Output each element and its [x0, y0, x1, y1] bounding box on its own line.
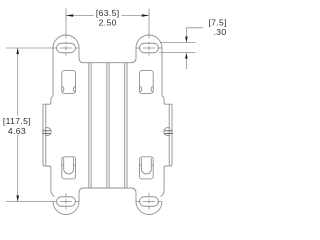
svg-text:2.50: 2.50: [99, 17, 117, 27]
svg-text:[7.5]: [7.5]: [208, 18, 226, 28]
svg-text:4.63: 4.63: [8, 126, 26, 136]
svg-text:[117.5]: [117.5]: [3, 116, 31, 126]
svg-text:.30: .30: [214, 27, 227, 37]
